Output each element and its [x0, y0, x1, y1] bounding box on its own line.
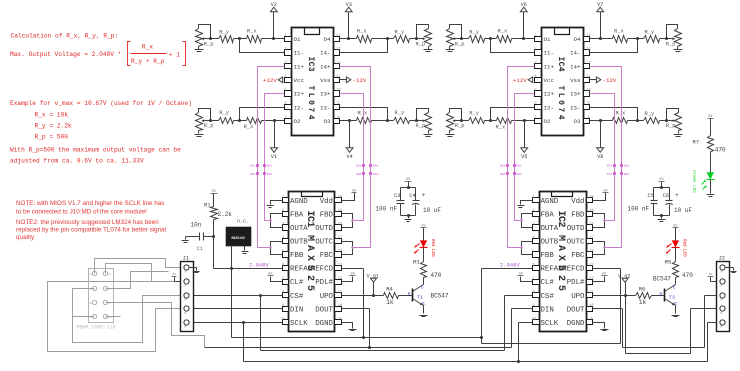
svg-text:Green LED: Green LED: [691, 170, 695, 193]
svg-text:SC: SC: [720, 312, 724, 315]
svg-text:OUTC: OUTC: [567, 239, 585, 247]
svg-text:to be connected to J10:MD of t: to be connected to J10:MD of the core mo…: [16, 208, 147, 215]
svg-text:Calculation of R_x, R_y, R_p:: Calculation of R_x, R_y, R_p:: [11, 33, 119, 40]
svg-text:I4-: I4-: [320, 50, 330, 57]
svg-text:13: 13: [586, 48, 590, 52]
svg-text:PDL#: PDL#: [567, 279, 585, 287]
svg-text:7: 7: [282, 277, 284, 281]
svg-text:11: 11: [336, 75, 341, 79]
svg-text:17: 17: [589, 236, 593, 240]
svg-text:B: B: [660, 292, 663, 298]
svg-text:SO: SO: [720, 298, 724, 301]
svg-text:OUTC: OUTC: [315, 239, 333, 247]
svg-text:adjusted from ca. 9.6V to ca.: adjusted from ca. 9.6V to ca. 11.33V: [10, 158, 144, 165]
svg-text:15: 15: [338, 223, 342, 227]
svg-text:FBB: FBB: [541, 252, 555, 260]
svg-text:O4: O4: [324, 36, 331, 43]
svg-text:E: E: [422, 301, 425, 307]
svg-text:CL#: CL#: [541, 279, 555, 287]
svg-text:DOUT: DOUT: [315, 306, 333, 314]
svg-text:9: 9: [532, 304, 534, 308]
svg-text:14: 14: [336, 34, 341, 38]
svg-text:3: 3: [532, 223, 534, 227]
svg-text:CS#: CS#: [290, 293, 304, 301]
svg-text:FBA: FBA: [541, 212, 555, 220]
svg-text:5V: 5V: [602, 271, 606, 275]
svg-text:VD: VD: [184, 284, 188, 287]
svg-text:UPO: UPO: [320, 293, 334, 301]
svg-text:R7: R7: [693, 139, 699, 145]
svg-text:O32: O32: [356, 173, 362, 176]
svg-text:B: B: [408, 292, 411, 298]
svg-text:O1: O1: [294, 36, 301, 43]
svg-text:9: 9: [337, 102, 339, 106]
svg-text:I2-: I2-: [294, 104, 304, 111]
svg-text:R_x: R_x: [614, 28, 624, 34]
svg-text:10: 10: [338, 304, 342, 308]
svg-text:DIN: DIN: [290, 306, 303, 314]
svg-text:O82: O82: [624, 173, 630, 176]
svg-text:R_y: R_y: [219, 29, 229, 35]
svg-text:7: 7: [534, 116, 536, 120]
svg-text:9: 9: [587, 102, 589, 106]
svg-text:O22: O22: [267, 173, 273, 176]
svg-text:1k: 1k: [639, 299, 647, 306]
svg-text:Vss: Vss: [570, 77, 580, 84]
svg-text:2.2k: 2.2k: [218, 211, 233, 218]
svg-text:R_x: R_x: [358, 110, 368, 116]
svg-text:R_p: R_p: [666, 41, 676, 47]
svg-text:+: +: [675, 192, 679, 199]
svg-text:R_p: R_p: [455, 123, 465, 129]
svg-text:9: 9: [282, 304, 284, 308]
svg-text:10: 10: [586, 89, 590, 93]
svg-text:11: 11: [589, 290, 594, 294]
svg-text:Vcc: Vcc: [294, 77, 305, 84]
svg-text:BC547: BC547: [653, 276, 671, 283]
svg-text:R_p: R_p: [416, 41, 426, 47]
svg-text:OUTD: OUTD: [567, 225, 585, 233]
svg-text:10 uF: 10 uF: [674, 207, 692, 214]
svg-text:O21: O21: [267, 165, 273, 168]
svg-text:R_x: R_x: [247, 28, 257, 34]
svg-text:R_p: R_p: [204, 41, 214, 47]
svg-text:2: 2: [532, 209, 534, 213]
svg-text:R_x: R_x: [244, 124, 254, 130]
svg-text:DGND: DGND: [315, 320, 333, 328]
svg-text:5: 5: [284, 89, 286, 93]
svg-text:9: 9: [339, 318, 341, 322]
svg-text:O4: O4: [574, 36, 581, 43]
svg-text:R_p: R_p: [455, 41, 465, 47]
svg-text:+12V: +12V: [263, 77, 277, 84]
svg-text:IC4: IC4: [556, 57, 565, 72]
svg-text:OUTD: OUTD: [315, 225, 333, 233]
svg-text:BC547: BC547: [431, 293, 449, 300]
svg-text:RC: RC: [720, 326, 724, 329]
svg-text:J1: J1: [183, 254, 190, 261]
svg-text:I4+: I4+: [570, 63, 581, 70]
svg-text:5V: 5V: [519, 271, 523, 275]
svg-text:FBD: FBD: [320, 212, 334, 220]
svg-text:I4+: I4+: [320, 63, 331, 70]
svg-text:10: 10: [589, 304, 593, 308]
svg-text:AGND: AGND: [290, 198, 308, 206]
svg-text:10: 10: [531, 318, 535, 322]
svg-text:O51: O51: [500, 165, 506, 168]
svg-text:O1: O1: [544, 36, 551, 43]
svg-text:CL#: CL#: [290, 279, 304, 287]
svg-text:FBB: FBB: [290, 252, 304, 260]
svg-text:20: 20: [589, 196, 593, 200]
svg-text:SCLK: SCLK: [290, 320, 308, 328]
svg-text:10: 10: [281, 318, 285, 322]
svg-text:15: 15: [589, 223, 593, 227]
svg-text:PDL#: PDL#: [315, 279, 333, 287]
svg-text:R_p: R_p: [666, 123, 676, 129]
svg-text:470: 470: [431, 272, 442, 279]
svg-text:IC3: IC3: [306, 57, 315, 72]
svg-text:13: 13: [589, 263, 593, 267]
svg-text:+12V: +12V: [513, 77, 527, 84]
svg-text:100 nF: 100 nF: [628, 206, 650, 213]
svg-text:R_y: R_y: [645, 111, 655, 117]
svg-text:V7: V7: [597, 2, 603, 8]
svg-text:IC2: IC2: [555, 211, 566, 228]
svg-text:quality: quality: [16, 234, 35, 241]
svg-text:NOTE: with MIOS V1.7 and highe: NOTE: with MIOS V1.7 and higher the SCLK…: [16, 200, 164, 207]
svg-text:FBC: FBC: [571, 252, 585, 260]
svg-text:C5: C5: [648, 193, 654, 199]
svg-text:+: +: [422, 192, 426, 199]
svg-text:IC1: IC1: [304, 211, 315, 228]
svg-text:FBD: FBD: [571, 212, 585, 220]
svg-text:7: 7: [284, 116, 286, 120]
svg-text:R6: R6: [639, 286, 645, 292]
svg-text:R1: R1: [204, 203, 210, 209]
svg-text:T3: T3: [669, 294, 675, 300]
svg-text:6: 6: [282, 263, 284, 267]
svg-text:R_x: R_x: [496, 125, 506, 131]
svg-text:6: 6: [534, 102, 536, 106]
svg-text:Vcc: Vcc: [544, 77, 555, 84]
svg-text:11: 11: [338, 290, 343, 294]
svg-text:O81: O81: [624, 165, 630, 168]
svg-text:Vdd: Vdd: [320, 198, 333, 206]
svg-text:AGND: AGND: [541, 198, 559, 206]
svg-text:7: 7: [532, 277, 534, 281]
svg-text:5V: 5V: [708, 114, 712, 118]
svg-text:I2+: I2+: [544, 91, 555, 98]
svg-text:DGND: DGND: [567, 320, 585, 328]
svg-text:5: 5: [532, 250, 534, 254]
svg-text:R_x: R_x: [616, 110, 626, 116]
svg-text:DIN: DIN: [541, 306, 554, 314]
svg-text:100 nF: 100 nF: [376, 206, 398, 213]
svg-text:9: 9: [590, 318, 592, 322]
svg-text:O71: O71: [607, 165, 613, 168]
svg-text:10n: 10n: [191, 222, 202, 229]
svg-text:470: 470: [715, 147, 726, 154]
svg-text:5V: 5V: [268, 271, 272, 275]
svg-text:5V: 5V: [709, 273, 713, 276]
svg-text:V_g2: V_g2: [618, 273, 630, 279]
svg-text:R_y: R_y: [395, 110, 405, 116]
svg-text:VD: VD: [720, 284, 724, 287]
svg-text:3: 3: [284, 61, 286, 65]
svg-text:R_y + R_p: R_y + R_p: [131, 58, 165, 65]
svg-text:-12V: -12V: [353, 77, 367, 84]
svg-text:V_g1: V_g1: [367, 273, 379, 279]
svg-text:I1-: I1-: [294, 50, 304, 57]
svg-text:13: 13: [338, 263, 342, 267]
svg-text:1k: 1k: [386, 299, 394, 306]
svg-text:8: 8: [337, 116, 339, 120]
svg-text:I3-: I3-: [570, 104, 580, 111]
svg-text:R_x: R_x: [498, 28, 508, 34]
svg-text:2: 2: [284, 48, 286, 52]
svg-text:V8: V8: [597, 154, 603, 160]
svg-text:SC: SC: [184, 312, 188, 315]
svg-text:V3: V3: [346, 2, 352, 8]
svg-text:O42: O42: [373, 173, 379, 176]
svg-text:11: 11: [586, 75, 591, 79]
svg-text:FBC: FBC: [320, 252, 334, 260]
svg-text:2: 2: [534, 48, 536, 52]
svg-text:n.c.: n.c.: [237, 219, 249, 225]
svg-text:R_y: R_y: [645, 29, 655, 35]
svg-text:R_y: R_y: [219, 110, 229, 116]
svg-text:NOTE2: the previously suggeste: NOTE2: the previously suggested LM324 ha…: [16, 219, 159, 226]
svg-text:T1: T1: [417, 294, 423, 300]
svg-text:RC: RC: [184, 326, 188, 329]
svg-text:14: 14: [338, 250, 343, 254]
svg-text:VS: VS: [720, 271, 724, 274]
svg-text:Example for v_max = 10.67V (us: Example for v_max = 10.67V (used for 1V …: [10, 100, 192, 107]
svg-text:I3+: I3+: [320, 91, 331, 98]
svg-text:14: 14: [586, 34, 591, 38]
svg-text:2.048V: 2.048V: [500, 261, 521, 268]
svg-text:MBHP_CORE:J10: MBHP_CORE:J10: [77, 324, 116, 330]
svg-text:R5: R5: [665, 259, 671, 265]
svg-text:V4: V4: [346, 154, 352, 160]
svg-text:R_p: R_p: [204, 123, 214, 129]
svg-text:5V: 5V: [351, 271, 355, 275]
svg-text:O72: O72: [607, 173, 613, 176]
svg-text:10: 10: [336, 89, 340, 93]
svg-text:I1-: I1-: [544, 50, 554, 57]
svg-text:V6: V6: [521, 2, 527, 8]
svg-text:SO: SO: [184, 298, 188, 301]
svg-text:VS: VS: [184, 271, 188, 274]
svg-text:12: 12: [589, 277, 593, 281]
svg-text:E: E: [674, 301, 677, 307]
svg-text:I3-: I3-: [320, 104, 330, 111]
svg-text:12: 12: [336, 61, 340, 65]
svg-text:MAX6102: MAX6102: [232, 236, 245, 240]
svg-text:J2: J2: [719, 254, 726, 261]
svg-text:V2: V2: [271, 2, 277, 8]
svg-text:O52: O52: [500, 173, 506, 176]
svg-text:-12V: -12V: [603, 77, 617, 84]
svg-text:C: C: [673, 285, 676, 291]
svg-text:17: 17: [338, 236, 342, 240]
svg-text:16: 16: [338, 209, 342, 213]
svg-text:O12: O12: [250, 173, 256, 176]
svg-text:C: C: [421, 285, 424, 291]
svg-text:V1: V1: [271, 154, 277, 160]
svg-text:6: 6: [532, 263, 534, 267]
svg-text:Red LED: Red LED: [682, 239, 687, 257]
svg-text:8: 8: [587, 116, 589, 120]
svg-text:I4-: I4-: [570, 50, 580, 57]
svg-text:O11: O11: [250, 165, 256, 168]
svg-text:Max. Output Voltage = 2.048V *: Max. Output Voltage = 2.048V *: [10, 51, 121, 58]
svg-text:O2: O2: [294, 118, 301, 125]
svg-text:replaced by the pin compatible: replaced by the pin compatible TL074 for…: [16, 226, 166, 233]
svg-text:R4: R4: [386, 286, 392, 292]
svg-text:C1: C1: [197, 246, 203, 252]
svg-text:Vdd: Vdd: [571, 198, 584, 206]
svg-text:O3: O3: [324, 118, 331, 125]
svg-text:O61: O61: [516, 165, 522, 168]
svg-text:+ 1: + 1: [169, 52, 180, 59]
svg-text:SCLK: SCLK: [541, 320, 559, 328]
svg-text:3: 3: [534, 61, 536, 65]
svg-text:R_x: R_x: [357, 28, 367, 34]
svg-text:12: 12: [338, 277, 342, 281]
svg-text:5: 5: [534, 89, 536, 93]
svg-text:With R_p=500 the maximum outpu: With R_p=500 the maximum output voltage …: [10, 147, 181, 154]
svg-text:V5: V5: [521, 154, 527, 160]
svg-text:R_x: R_x: [142, 43, 153, 50]
svg-text:R3: R3: [413, 259, 419, 265]
svg-text:8: 8: [532, 290, 534, 294]
svg-text:DOUT: DOUT: [567, 306, 585, 314]
svg-text:O62: O62: [516, 173, 522, 176]
svg-text:14: 14: [589, 250, 594, 254]
svg-text:C3: C3: [394, 193, 400, 199]
svg-text:R_y: R_y: [469, 29, 479, 35]
svg-text:UPO: UPO: [571, 293, 585, 301]
svg-text:20: 20: [338, 196, 342, 200]
svg-text:R_p = 500: R_p = 500: [35, 134, 69, 141]
svg-text:R_y = 2.2k: R_y = 2.2k: [35, 123, 72, 130]
svg-text:I1+: I1+: [294, 63, 305, 70]
svg-text:2.048V: 2.048V: [249, 261, 270, 268]
svg-text:I1+: I1+: [544, 63, 555, 70]
svg-text:16: 16: [589, 209, 593, 213]
svg-text:5V: 5V: [172, 273, 176, 276]
svg-text:C4: C4: [409, 193, 415, 199]
svg-text:I3+: I3+: [570, 91, 581, 98]
svg-text:Red LED: Red LED: [430, 239, 435, 257]
svg-text:O3: O3: [574, 118, 581, 125]
svg-text:5V: 5V: [352, 188, 356, 192]
svg-text:CS#: CS#: [541, 293, 555, 301]
svg-text:R_p: R_p: [416, 123, 426, 129]
svg-text:2: 2: [282, 209, 284, 213]
svg-text:8: 8: [282, 290, 284, 294]
svg-text:R_x = 10k: R_x = 10k: [35, 112, 69, 119]
svg-text:10 uF: 10 uF: [423, 207, 441, 214]
svg-text:R_y: R_y: [469, 111, 479, 117]
svg-text:FBA: FBA: [290, 212, 304, 220]
svg-text:I2+: I2+: [294, 91, 305, 98]
svg-text:470: 470: [682, 272, 693, 279]
svg-text:C6: C6: [663, 193, 669, 199]
svg-text:R_y: R_y: [395, 29, 405, 35]
svg-text:I2-: I2-: [544, 104, 554, 111]
svg-text:6: 6: [284, 102, 286, 106]
svg-text:Vss: Vss: [320, 77, 330, 84]
svg-text:O2: O2: [544, 118, 551, 125]
svg-text:O31: O31: [356, 165, 362, 168]
svg-text:3: 3: [282, 223, 284, 227]
svg-text:5: 5: [282, 250, 284, 254]
svg-text:O41: O41: [373, 165, 379, 168]
svg-text:5V: 5V: [604, 188, 608, 192]
svg-text:13: 13: [336, 48, 340, 52]
svg-text:12: 12: [586, 61, 590, 65]
